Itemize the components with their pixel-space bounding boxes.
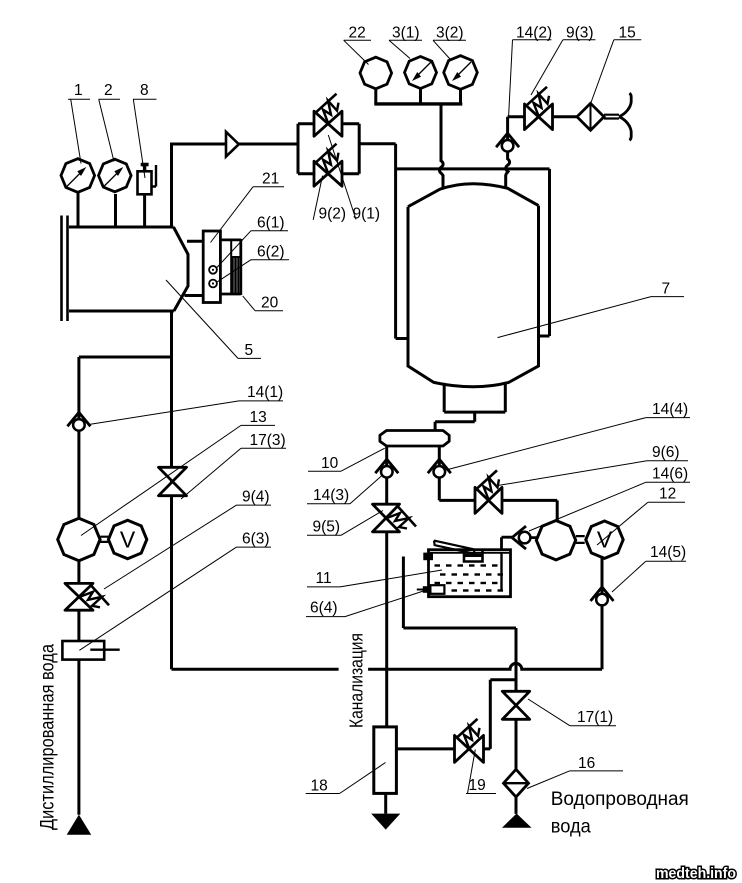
svg-text:3(2): 3(2) xyxy=(436,25,464,42)
svg-text:17(1): 17(1) xyxy=(577,709,613,726)
svg-text:6(1): 6(1) xyxy=(257,215,285,232)
svg-text:8: 8 xyxy=(140,82,149,99)
svg-text:5: 5 xyxy=(245,342,254,359)
svg-text:9(4): 9(4) xyxy=(242,489,270,506)
svg-text:7: 7 xyxy=(662,281,671,298)
svg-text:16: 16 xyxy=(578,755,595,772)
svg-text:22: 22 xyxy=(349,25,366,42)
svg-text:19: 19 xyxy=(469,777,486,794)
svg-text:14(3): 14(3) xyxy=(313,487,349,504)
svg-text:15: 15 xyxy=(619,25,636,42)
svg-text:17(3): 17(3) xyxy=(250,432,286,449)
svg-text:2: 2 xyxy=(104,82,113,99)
svg-text:medteh.info: medteh.info xyxy=(656,866,736,882)
svg-text:1: 1 xyxy=(74,82,83,99)
svg-text:11: 11 xyxy=(316,570,332,587)
svg-text:20: 20 xyxy=(261,295,279,312)
svg-text:6(4): 6(4) xyxy=(310,600,338,617)
svg-text:18: 18 xyxy=(311,778,328,795)
svg-text:Дистиллированная вода: Дистиллированная вода xyxy=(37,644,59,830)
svg-text:3(1): 3(1) xyxy=(392,25,420,42)
svg-text:12: 12 xyxy=(659,486,676,503)
svg-text:14(5): 14(5) xyxy=(650,544,686,561)
svg-text:6(2): 6(2) xyxy=(257,244,285,261)
svg-text:9(5): 9(5) xyxy=(313,519,341,536)
svg-text:10: 10 xyxy=(321,455,339,472)
svg-text:9(3): 9(3) xyxy=(566,25,594,42)
svg-text:21: 21 xyxy=(262,171,279,188)
svg-text:13: 13 xyxy=(250,409,267,426)
svg-text:6(3): 6(3) xyxy=(242,531,270,548)
svg-text:9(1): 9(1) xyxy=(353,206,381,223)
svg-text:14(6): 14(6) xyxy=(652,466,688,483)
svg-text:V: V xyxy=(120,527,136,553)
svg-text:14(4): 14(4) xyxy=(652,401,688,418)
svg-text:V: V xyxy=(597,527,613,553)
svg-text:Водопроводная: Водопроводная xyxy=(551,788,689,810)
svg-text:14(2): 14(2) xyxy=(516,25,552,42)
svg-text:9(6): 9(6) xyxy=(652,444,680,461)
svg-text:14(1): 14(1) xyxy=(247,384,283,401)
svg-text:вода: вода xyxy=(551,816,591,838)
svg-text:9(2): 9(2) xyxy=(319,206,347,223)
svg-text:Канализация: Канализация xyxy=(347,633,367,728)
